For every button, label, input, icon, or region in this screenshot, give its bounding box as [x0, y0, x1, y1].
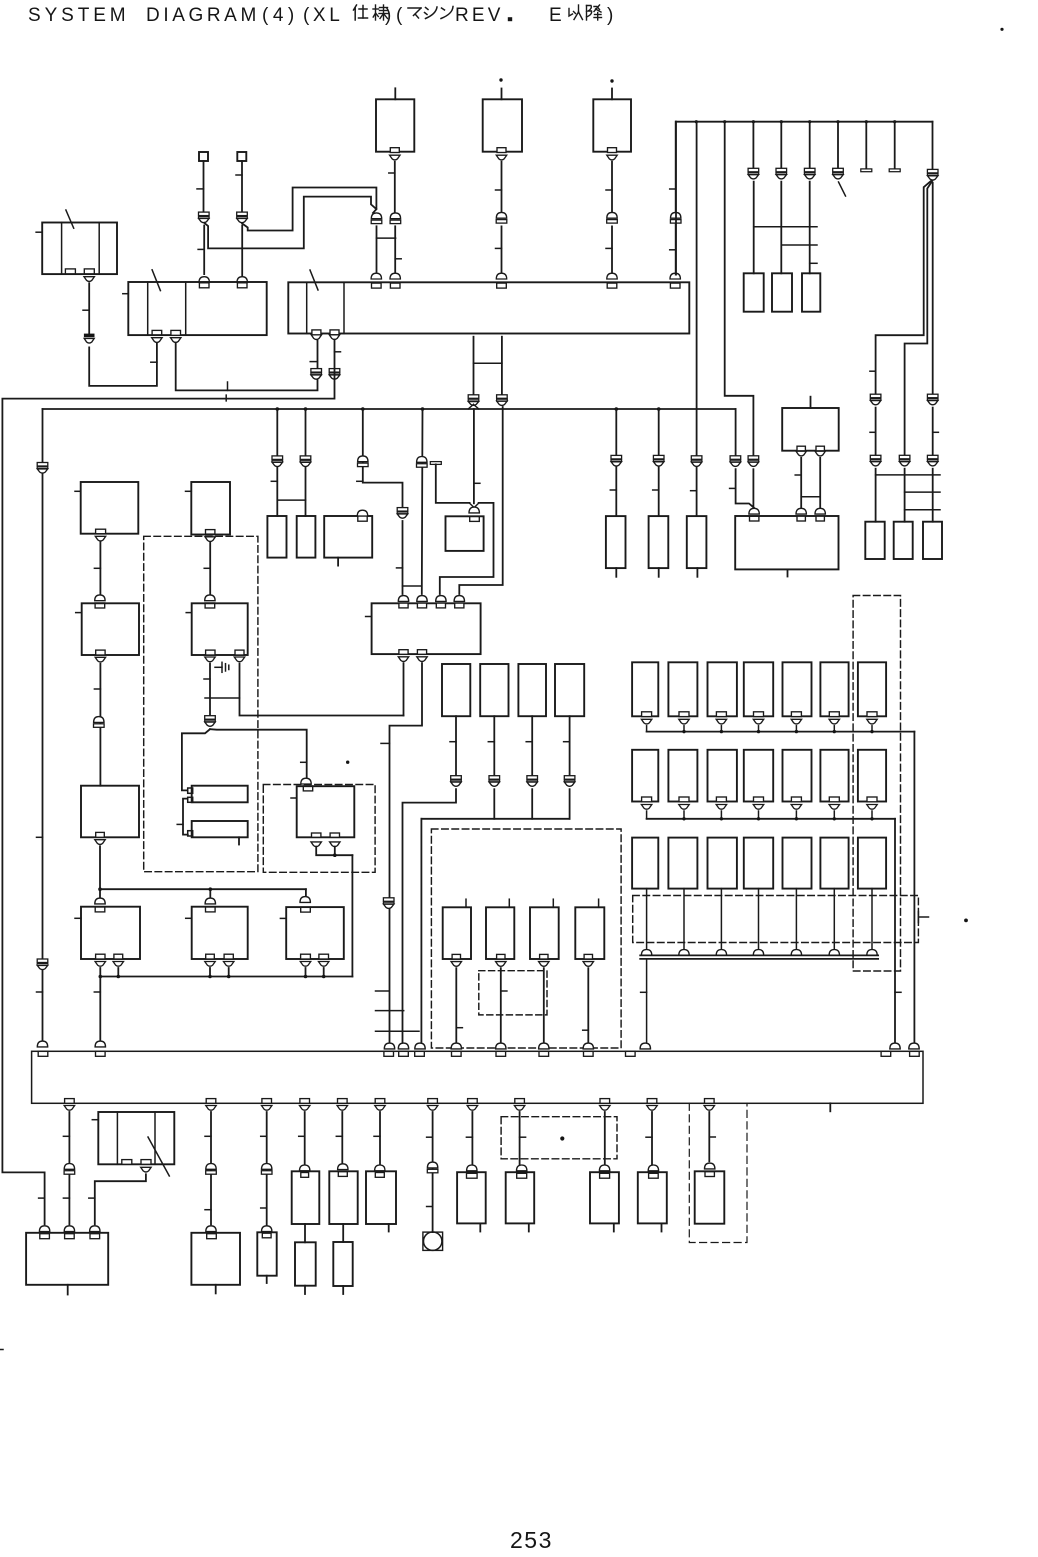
tick on P7 wire — [310, 361, 316, 363]
B5b bottom stub — [304, 1286, 306, 1294]
junction dots on top bus — [695, 120, 698, 123]
connector CN-277 — [272, 456, 283, 460]
connector over box G pin1 — [749, 508, 759, 514]
main bus y409 — [43, 408, 736, 410]
wire x875 lower — [875, 408, 877, 456]
wire x932 lower — [932, 408, 934, 456]
box L2 — [82, 603, 139, 655]
L3 bottom pin — [96, 832, 105, 837]
box M2 — [192, 603, 248, 655]
wire box C down — [611, 162, 613, 213]
box E stub — [658, 568, 660, 577]
B2 riser pin P6 — [670, 283, 680, 288]
wire L4a to bus3 — [99, 968, 101, 977]
connector over box3 pin1 — [398, 596, 408, 602]
box B5b — [295, 1242, 316, 1285]
L1 bottom pin — [96, 529, 106, 534]
link x473-x502 y363 — [474, 362, 502, 364]
tick x211 y1136 — [205, 1135, 211, 1137]
connector CN-362 dome over bars — [358, 456, 368, 462]
box TLB control unit — [42, 223, 117, 275]
pin TB1-a square — [188, 788, 193, 793]
junction dot y889 — [98, 887, 102, 891]
grid box R1C2 — [668, 662, 697, 716]
connector over B11 — [648, 1165, 658, 1171]
tick on box C wire upper — [606, 189, 612, 191]
connector under IB4 — [583, 962, 593, 967]
connector over LC pin — [357, 510, 367, 516]
pin BB top P-890 — [881, 1051, 891, 1056]
tick x266 y1208 — [261, 1207, 267, 1209]
wire C continues from CN-932 — [932, 183, 934, 394]
grid box R1C1 — [632, 662, 658, 716]
connector under R2C2 — [679, 805, 689, 810]
connector CN-IB3 to big box — [539, 1043, 549, 1049]
connector under L1 — [95, 536, 105, 541]
D2 left tick — [291, 797, 297, 799]
wire R3C5 down — [795, 889, 797, 951]
box D stub — [615, 568, 617, 577]
box A bottom pin — [390, 148, 399, 153]
pin BB top P-419 — [415, 1051, 425, 1056]
pin D2 top — [303, 786, 312, 791]
TLB slash mark — [66, 210, 74, 228]
tick on x389 wire — [381, 742, 390, 744]
connector CN-M2a inline — [205, 716, 216, 720]
tick on riser y189 — [670, 188, 676, 190]
pin B6a top — [338, 1172, 347, 1177]
pin R2C1 — [642, 797, 652, 802]
connector under L4 pin b — [113, 962, 123, 967]
row3 dashed box RDB — [633, 896, 919, 943]
box B10 — [590, 1172, 619, 1223]
wire x753 to box G pin — [752, 469, 754, 508]
connector R3C3 to double bus — [716, 950, 726, 956]
title katakana シ — [425, 7, 438, 19]
connector under TLB pin B — [84, 277, 94, 282]
box3 junction unit — [372, 603, 481, 654]
SB divider 2 — [154, 1112, 156, 1164]
long wire B2 pin8 to left edge and bottom — [2, 340, 334, 1225]
connector CN-753 — [748, 168, 759, 172]
connector CN-389 inline — [383, 898, 394, 902]
BM bottom stub — [215, 1285, 217, 1294]
wire B6a-B6b — [342, 1224, 344, 1242]
connector CN-L23 dome over bars — [94, 717, 104, 723]
tick on x875 lower — [870, 431, 876, 433]
connector CN-735 — [730, 456, 741, 460]
connector over L2 — [95, 595, 105, 601]
connector under L4 pin a — [95, 962, 105, 967]
pin box3 top 1 — [399, 603, 408, 608]
tick on CN-A lower wire — [395, 258, 401, 260]
bus2 junction dots — [682, 817, 685, 820]
grid box R3C5 — [783, 838, 812, 889]
D2 pin a — [312, 833, 321, 837]
twisted pair wire A from CN-932 — [876, 181, 932, 395]
tick on L2-L3 wire — [94, 688, 100, 690]
MB divider 2 — [185, 282, 187, 335]
twisted pair wire B from CN-932 — [905, 181, 933, 455]
branch y889 to box6 — [305, 889, 307, 897]
wire G2a down — [800, 458, 802, 508]
CN-473 wire splay to bus — [468, 404, 473, 409]
bottom-left box BL — [26, 1233, 108, 1285]
L2 bottom pin — [96, 650, 105, 655]
tick on L1-L2 wire — [94, 567, 100, 569]
svg-text:253: 253 — [510, 1527, 553, 1553]
box B12 — [695, 1171, 725, 1223]
drop wire x696 to box F — [696, 122, 698, 456]
connector over D2 box — [301, 778, 311, 784]
bundle horizontal y818 — [421, 818, 569, 820]
wire x380 down — [379, 1112, 381, 1164]
pin BB top P-100 — [96, 1051, 106, 1056]
B7 bottom stub — [388, 1224, 390, 1232]
wire x809 to small box row — [809, 182, 811, 274]
pin R2C2 — [679, 797, 689, 802]
wire L4b to bus3 — [117, 968, 119, 977]
box B6a — [329, 1171, 357, 1224]
connector CN-IB2 to big box — [496, 1043, 506, 1049]
isolated junction dot right — [964, 919, 968, 923]
box M4 — [192, 907, 248, 959]
wire x932 into box T3 — [932, 469, 934, 522]
connector under BB P-604 — [600, 1106, 610, 1111]
connector CN-838 open — [833, 168, 844, 172]
bundle rung T1 — [876, 474, 940, 476]
slash on CN-838 — [839, 182, 846, 196]
wire box B down — [501, 162, 503, 213]
bus2 end drop x735 — [735, 409, 737, 456]
wire R2C1 to bus — [646, 811, 648, 819]
drop wire x809 upper — [809, 122, 811, 169]
risers to big box connectors — [890, 1043, 900, 1049]
drop x277 from bus2 — [276, 409, 278, 516]
connector under G2 pin a — [796, 451, 806, 456]
connector under BB P-266 — [262, 1106, 272, 1111]
wire from J1 down — [203, 161, 205, 212]
connector under BB P-342 — [337, 1106, 347, 1111]
drop wire x838 — [837, 122, 839, 169]
pin L2 top — [95, 603, 105, 608]
connector R3C7 to double bus — [867, 950, 877, 956]
wire TLB-B down — [88, 283, 90, 334]
drop stub x894 with T bar — [894, 122, 896, 169]
wire box3 pin1 down to y714 — [403, 663, 405, 715]
wire R1C2 to bus — [683, 726, 685, 732]
wire x735 to box G pin — [736, 469, 755, 508]
wire x432 down — [432, 1112, 434, 1232]
connector CN-421 to big box — [415, 1043, 425, 1049]
bundle tick y1010 — [376, 1010, 404, 1012]
tick on x932 lower — [933, 431, 939, 433]
title kanji 仕 — [354, 5, 368, 20]
grid box R1C6 — [820, 662, 848, 716]
connector CN-266 dome over bars — [262, 1164, 272, 1170]
box R3b — [772, 273, 792, 311]
connector CN-644 to big box — [640, 1043, 650, 1049]
pin R2C4 — [754, 797, 764, 802]
M2 pin b — [235, 650, 244, 655]
IB2 bottom pin — [497, 954, 505, 959]
drop stub x866 with T bar — [865, 122, 867, 169]
pin box3 top 3 — [436, 603, 445, 608]
connector CN-J1b to box pin — [199, 277, 209, 283]
tick on x277 — [271, 480, 277, 482]
connector under L3 — [95, 840, 105, 845]
wire MR1 jog to x402 — [403, 789, 457, 1042]
pin R1C6 — [829, 712, 839, 717]
connector under BB P-652 — [647, 1106, 657, 1111]
wire MR2 down — [493, 716, 495, 776]
connector under BB P-69 — [64, 1106, 74, 1111]
pin P5 on wide box B2 — [607, 283, 617, 288]
dashed box DB2 — [263, 785, 375, 873]
tick x472 y1137 — [466, 1136, 472, 1138]
tick x266 y1136 — [261, 1135, 267, 1137]
svg-text:(4): (4) — [262, 5, 299, 26]
pin BB top P-913 — [910, 1051, 920, 1056]
mid box MB relay unit — [128, 282, 266, 335]
pin BL-3 — [90, 1234, 100, 1239]
wire R3C4 down — [758, 889, 760, 951]
connector under BB P-304 — [300, 1106, 310, 1111]
RDB right tick bar — [917, 912, 919, 923]
grid box R2C5 — [783, 750, 812, 802]
pin box3 bottom 2 — [417, 650, 426, 655]
box6 pin a — [301, 954, 311, 959]
grid bus2 y818 — [647, 818, 895, 820]
B9 bottom stub — [528, 1223, 530, 1231]
connector under SB pin b — [141, 1167, 151, 1172]
title text SYSTEM DIAGRAM — [28, 5, 613, 26]
wire x304 down — [304, 1112, 306, 1164]
drop x362 from bus2 jog to x402 — [363, 409, 403, 508]
connector under R2C6 — [829, 805, 839, 810]
M4 left tick — [186, 917, 192, 919]
IB4 top stub — [598, 899, 600, 907]
TLB pin A — [65, 269, 75, 274]
connector CN-389 to big box — [384, 1043, 394, 1049]
L4 pin b — [114, 954, 123, 959]
box F — [687, 516, 707, 568]
D2 pin b — [330, 833, 339, 837]
big box BB main harness frame — [32, 1051, 923, 1103]
pin BB bottom P-709 — [705, 1099, 715, 1104]
connector CN-658 — [653, 455, 664, 459]
tick x69 y1198 — [63, 1197, 69, 1199]
connector CN-502 — [497, 395, 508, 399]
connector CN-B dome over bar — [496, 212, 506, 218]
bus3 junction dots — [99, 975, 103, 979]
pin B7 top — [375, 1173, 384, 1178]
connector CN-809 — [804, 168, 815, 172]
box B7 — [366, 1171, 396, 1224]
connector under B2 pin7 — [311, 335, 321, 340]
tick on IB1 wire — [456, 1027, 462, 1029]
wire L2-L3 — [99, 664, 101, 786]
wire x709 down — [708, 1112, 710, 1161]
wire x266 down — [266, 1112, 268, 1225]
pin box6 top — [301, 907, 311, 912]
connector under R1C1 — [641, 719, 651, 724]
connector CN-J2 inline — [237, 212, 248, 216]
pin BN top — [262, 1233, 271, 1238]
wire R2C2 to bus — [683, 811, 685, 819]
pin BB top P-402 — [399, 1051, 409, 1056]
pin R1C4 — [754, 712, 764, 717]
wire MB pin2 to B2 pin7 — [176, 340, 318, 391]
connector R3C1 to double bus — [641, 950, 651, 956]
connector CN-P8 inline — [329, 369, 340, 373]
L4 pin a — [96, 954, 105, 959]
connector under G2 pin b — [815, 451, 825, 456]
tick on y390 link — [227, 382, 229, 390]
link between wires at y238 — [377, 237, 396, 239]
connector under M1 — [205, 537, 215, 542]
connector under R2C1 — [641, 805, 651, 810]
wire R3C2 down — [683, 889, 685, 951]
wire R1C7 to bus — [871, 726, 873, 732]
dashed box BRD bottom right — [689, 1103, 747, 1242]
box A top stub — [394, 88, 396, 99]
grid box R2C3 — [708, 750, 737, 802]
tick on x306 branch — [301, 761, 307, 763]
connector CN-932 low — [927, 455, 938, 459]
tick on M2a wire — [204, 678, 210, 680]
connector CN-875 low — [870, 455, 881, 459]
grid box R2C7 — [858, 750, 886, 802]
tick on TLB-B wire — [83, 309, 89, 311]
wire box3 pin2 jog to x389 — [390, 663, 423, 1042]
box B top stub — [501, 89, 503, 100]
connector CN-402L to big box — [398, 1043, 408, 1049]
MB divider 1 — [147, 282, 149, 335]
TLB left lead tick — [36, 231, 42, 233]
connector under box6 pin a — [300, 962, 310, 967]
wire x472 down — [471, 1112, 473, 1164]
tick on riser x157 — [151, 361, 157, 363]
tick x709 y1137 — [709, 1136, 715, 1138]
branch y889 to M4 — [209, 889, 211, 897]
pin on box M top — [470, 516, 480, 521]
box D2 — [297, 786, 355, 837]
mid row box MR2 — [480, 664, 508, 716]
connector CN-Cb to B2 pin — [607, 273, 617, 279]
wire TB1 pin2 to TB2 pin — [183, 799, 188, 835]
tick x616 — [610, 489, 616, 491]
wire R3C7 down — [871, 889, 873, 951]
TLB divider left — [61, 223, 63, 275]
crossing link M2 y698 — [205, 697, 240, 699]
connector under L2 — [95, 657, 105, 662]
IB2 top stub — [508, 899, 510, 907]
connector CN-A dome over bars — [390, 213, 400, 219]
left edge mark y1348 — [0, 1349, 3, 1351]
connector CN-C dome over bar — [607, 212, 617, 218]
pin B12 top — [705, 1172, 714, 1177]
thin box TB2 — [192, 821, 248, 837]
box T1 — [865, 522, 884, 559]
grid box R3C6 — [820, 838, 848, 889]
tick on MR2 wire — [488, 741, 494, 743]
inner dashed box IDB — [479, 971, 547, 1015]
wire R1C6 to bus — [833, 726, 835, 732]
connector under R1C2 — [679, 719, 689, 724]
pin BB top P-IB1 — [452, 1051, 462, 1056]
tick on x875 wire — [870, 370, 876, 372]
dot in SDB — [560, 1136, 564, 1140]
connector over B12 — [705, 1163, 715, 1169]
connector under D2 pin a — [311, 842, 321, 847]
connector under R2C3 — [716, 805, 726, 810]
wire R1C4 to bus — [758, 726, 760, 732]
M4 pin b — [224, 954, 233, 959]
tick on box A wire — [389, 172, 395, 174]
pin R1C2 — [679, 712, 689, 717]
motor symbol circle in square — [423, 1232, 443, 1250]
pin BB bottom P-432 — [428, 1099, 438, 1104]
pin TB2 square — [188, 831, 193, 836]
pin B10 top — [600, 1173, 610, 1178]
box G2 mid right — [782, 408, 839, 451]
tick on x895 riser — [895, 991, 901, 993]
pin BB top P-IB3 — [539, 1051, 549, 1056]
dot above box C — [610, 79, 613, 82]
B2 divider 2 — [343, 282, 345, 333]
tick x652 y1137 — [646, 1136, 652, 1138]
pin BB bottom P-519 — [515, 1099, 525, 1104]
connector under M2 pin b — [234, 657, 244, 662]
grid box R3C4 — [744, 838, 773, 889]
tick on MR3 wire — [526, 741, 532, 743]
wire R2C5 to bus — [795, 811, 797, 819]
wire MR1 down — [455, 716, 457, 776]
wire IB4 to big box — [587, 968, 589, 1042]
mid row box MR1 — [442, 664, 470, 716]
box B bottom pin — [497, 148, 506, 153]
IB3 top stub — [552, 899, 554, 907]
tick x69 y1136 — [63, 1135, 69, 1137]
top bus riser to B2 — [675, 122, 677, 275]
B8 bottom stub — [479, 1223, 481, 1231]
narrow box BN — [257, 1232, 276, 1275]
wire x604 down — [604, 1112, 606, 1164]
svg-text:SYSTEM: SYSTEM — [28, 5, 130, 26]
connector to BL pin2 — [64, 1226, 74, 1232]
bundle rung 1 — [754, 226, 817, 228]
drop x42 from bus2 long vertical — [42, 409, 44, 1043]
grid box R3C7 — [858, 838, 886, 889]
connector under BB P-472 — [467, 1106, 477, 1111]
box G bottom stub — [787, 569, 789, 576]
double bus line A — [640, 954, 878, 956]
wire SB to x94 — [95, 1174, 146, 1224]
mid row box MR4 — [555, 664, 584, 716]
connector under box3 bottom pin2 — [417, 657, 427, 662]
box3 left tick — [366, 616, 372, 618]
box6 left tick — [280, 917, 286, 919]
box LB — [297, 516, 316, 558]
bus2 junction dots — [276, 407, 280, 411]
tick on J2 wire — [236, 174, 242, 176]
tick on MR1 wire — [450, 741, 456, 743]
wire TLB-B to mid box pin — [89, 343, 157, 386]
pin R1C5 — [791, 712, 801, 717]
connector under BB P-432 — [427, 1106, 437, 1111]
inner box IB2 — [486, 907, 514, 959]
